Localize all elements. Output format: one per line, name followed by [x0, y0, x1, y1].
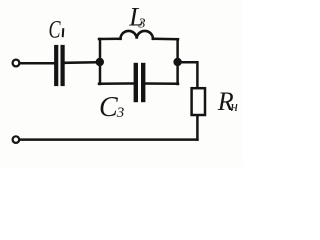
input terminal (top left) [13, 60, 20, 67]
output terminal (bottom left) [13, 136, 20, 143]
node B (right junction) [173, 58, 181, 66]
svg-text:н: н [231, 99, 238, 115]
wire: loop top left segment [99, 38, 121, 41]
wire: loop bottom left segment [99, 82, 134, 85]
wire: loop left side [99, 39, 102, 84]
wire: loop top right segment [153, 38, 178, 41]
label C1 [49, 17, 64, 44]
wire: C1 to node A [65, 61, 97, 64]
resistor RH (load) [192, 88, 205, 115]
capacitor C1 [56, 47, 62, 84]
bottom rail wire [20, 138, 197, 141]
label L3 [128, 2, 145, 31]
node A (left junction) [96, 58, 104, 66]
inductor L3 [121, 31, 153, 39]
label RH [217, 87, 238, 116]
wire: input terminal to C1 [21, 62, 54, 65]
svg-text:3: 3 [138, 17, 146, 32]
label C3 [99, 92, 124, 123]
wire: node B to resistor top [179, 62, 197, 87]
svg-text:3: 3 [116, 105, 125, 121]
svg-text:C: C [99, 92, 118, 123]
wire: loop right side [176, 39, 179, 84]
wire: loop bottom right segment [145, 82, 178, 85]
wire: resistor bottom to rail [196, 116, 199, 140]
svg-text:C: C [49, 17, 61, 44]
capacitor C3 [136, 65, 143, 100]
